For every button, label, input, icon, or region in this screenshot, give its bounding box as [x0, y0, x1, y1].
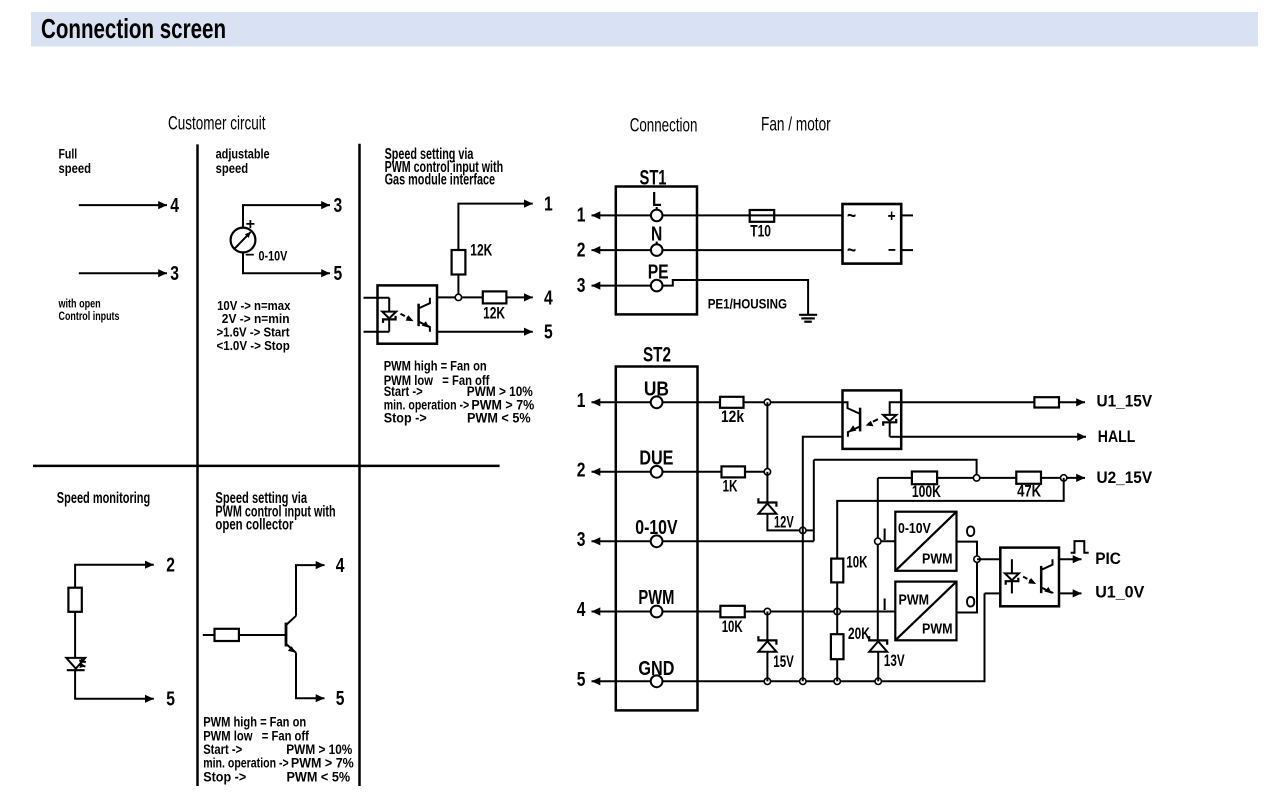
wire V1 to pin 5 — [243, 252, 330, 273]
svg-text:3: 3 — [170, 263, 179, 285]
svg-text:5: 5 — [544, 322, 553, 344]
converter A2 PWM to PWM — [895, 582, 956, 641]
wire PWM junction to R11 — [836, 612, 838, 635]
svg-text:1: 1 — [577, 205, 586, 227]
svg-text:PIC: PIC — [1095, 549, 1121, 568]
U1 light arrow — [401, 314, 414, 321]
U1 input wire bottom — [364, 331, 390, 333]
wire D2 to riser — [767, 514, 813, 531]
wire PWM junction to D3 — [766, 612, 768, 641]
U3 phototransistor — [1041, 559, 1052, 593]
resistor R8 100K — [912, 472, 937, 485]
svg-text:2: 2 — [166, 555, 175, 577]
header band — [31, 12, 1258, 47]
U1 phototransistor — [419, 298, 430, 332]
junction DUE — [764, 469, 770, 475]
resistor R10 10K vertical — [831, 559, 843, 583]
svg-text:−: − — [245, 247, 255, 264]
wire U2 collector to U1_15V — [901, 401, 1085, 403]
note PWM thresholds open collector — [203, 715, 354, 785]
node I input — [875, 538, 881, 544]
wire 100K 47K line to U2_15V — [878, 477, 1085, 479]
pin L — [651, 189, 663, 221]
wire 2 DUE to junction — [592, 471, 768, 473]
svg-text:5: 5 — [577, 669, 586, 691]
svg-text:Fan / motor: Fan / motor — [761, 114, 831, 135]
svg-text:3: 3 — [577, 275, 586, 297]
zener D2 12V — [758, 498, 776, 514]
svg-text:U2_15V: U2_15V — [1097, 468, 1153, 487]
svg-text:U1_15V: U1_15V — [1097, 391, 1153, 410]
wire R3 to pin 2 — [75, 565, 154, 588]
wire motor output top — [901, 214, 913, 216]
junction PWM 10K — [834, 608, 840, 614]
pin PWM — [638, 587, 674, 617]
divider horizontal — [33, 465, 500, 468]
LED D1 — [66, 658, 85, 670]
svg-text:speed: speed — [216, 160, 249, 176]
wire 1 L to motor — [592, 214, 843, 216]
svg-text:4: 4 — [170, 195, 179, 217]
label Speed setting via PWM control input with Gas module interface — [385, 146, 504, 189]
connector ST2 box — [616, 367, 698, 711]
junction GND c — [834, 678, 840, 684]
U2 phototransistor — [843, 402, 860, 437]
svg-text:O: O — [966, 522, 976, 541]
wire U2 emitter to GND — [803, 437, 843, 682]
transistor Q1 — [286, 616, 296, 653]
svg-text:Speed monitoring: Speed monitoring — [57, 490, 150, 507]
wire A1 A2 outputs — [957, 542, 978, 613]
svg-text:2: 2 — [577, 239, 586, 261]
U1 input wire top — [364, 297, 390, 299]
U3 light arrow — [1023, 577, 1036, 584]
zener D3 15V — [758, 636, 776, 652]
svg-text:I: I — [883, 525, 887, 544]
svg-text:20K: 20K — [848, 624, 870, 643]
resistor R7 10K — [720, 606, 744, 618]
wire base input — [203, 634, 285, 636]
wire 1 UB to U2 — [592, 401, 844, 403]
svg-text:with open: with open — [58, 299, 101, 311]
wire V1 to pin 3 — [243, 205, 330, 228]
svg-text:12K: 12K — [470, 241, 493, 260]
wire U3 LED cathode to GND — [985, 592, 1001, 594]
wire full speed to pin 4 — [79, 204, 167, 206]
wire feedback down to 10K — [837, 478, 1063, 559]
svg-text:100K: 100K — [912, 482, 942, 501]
wire R3 to LED D1 — [74, 612, 76, 658]
svg-text:15V: 15V — [773, 652, 794, 671]
pulse symbol — [1071, 541, 1089, 553]
svg-text:PWM: PWM — [899, 592, 930, 609]
junction zener gnd line — [800, 527, 806, 533]
optocoupler U3 box — [1000, 548, 1059, 607]
note PWM thresholds gas module — [384, 359, 535, 426]
note with open control inputs — [58, 299, 120, 324]
resistor R6 1K — [722, 466, 746, 477]
svg-text:0-10V: 0-10V — [898, 520, 931, 537]
svg-text:Stop ->: Stop -> — [384, 410, 427, 425]
wire R11 to GND — [836, 659, 838, 681]
wire U3 emitter to U1_0V — [1059, 592, 1082, 594]
label adjustable speed — [216, 146, 270, 176]
resistor R12 — [1034, 397, 1059, 407]
pin UB — [644, 378, 669, 408]
wire I node branch — [877, 478, 879, 641]
wire 0-10V top run — [814, 460, 977, 478]
wire Q1 collector to pin 4 — [296, 565, 325, 616]
junction 47K output — [1061, 475, 1067, 481]
resistor R4 — [215, 629, 239, 641]
wire 2 N to motor — [592, 249, 843, 251]
wire 0-10V riser — [813, 460, 815, 542]
wire D3 to GND — [766, 652, 768, 682]
svg-text:+: + — [888, 206, 896, 225]
svg-text:PWM: PWM — [922, 551, 953, 568]
svg-text:5: 5 — [336, 688, 345, 710]
wire U1 collector to pin 4 — [437, 296, 533, 298]
wire 4 PWM to converter A2 — [592, 611, 896, 613]
wire full speed to pin 3 — [79, 272, 167, 274]
svg-text:~: ~ — [847, 240, 856, 262]
wire 5 GND run — [592, 593, 985, 681]
U2 LED — [883, 402, 901, 437]
wire R10 to PWM junction — [836, 582, 838, 611]
pin N — [651, 224, 663, 256]
wire U1 emitter to pin 5 — [437, 331, 533, 333]
svg-text:1: 1 — [577, 390, 586, 412]
svg-text:HALL: HALL — [1098, 427, 1136, 446]
svg-text:Stop ->: Stop -> — [203, 769, 246, 784]
U2 light arrow — [866, 419, 878, 426]
pin GND — [638, 658, 674, 687]
svg-text:4: 4 — [544, 287, 553, 309]
svg-text:4: 4 — [577, 599, 586, 621]
svg-text:Customer circuit: Customer circuit — [168, 113, 266, 134]
junction GND a — [764, 678, 770, 684]
svg-text:ST2: ST2 — [643, 344, 671, 367]
svg-text:Connection screen: Connection screen — [41, 13, 226, 44]
pin 0-10V — [635, 517, 678, 547]
resistor R2 12K horizontal — [483, 291, 507, 303]
optocoupler U2 box — [843, 390, 902, 449]
wire 3 0-10V to riser — [592, 540, 814, 542]
resistor R9 47K — [1016, 472, 1041, 484]
wire motor output bottom — [901, 249, 913, 251]
zener D4 13V — [869, 636, 887, 652]
svg-text:4: 4 — [336, 555, 345, 577]
svg-text:0-10V: 0-10V — [259, 248, 288, 264]
wire I node to converter A1 — [878, 540, 896, 542]
fuse F1 — [750, 210, 775, 222]
svg-text:open collector: open collector — [215, 517, 293, 534]
junction UB — [764, 399, 770, 405]
wire LED D1 to pin 5 — [75, 670, 154, 699]
svg-text:T10: T10 — [750, 222, 771, 241]
optocoupler U1 box — [378, 285, 438, 343]
svg-text:O: O — [966, 593, 976, 612]
wire D4 to GND — [877, 652, 879, 682]
note voltage thresholds — [217, 298, 291, 353]
svg-text:PWM: PWM — [922, 621, 953, 638]
svg-text:PWM < 5%: PWM < 5% — [467, 410, 531, 425]
label Speed setting via PWM control input with open collector — [215, 490, 335, 534]
resistor R1 12K vertical — [452, 250, 466, 275]
svg-text:12K: 12K — [483, 304, 506, 323]
svg-text:Control inputs: Control inputs — [59, 311, 120, 323]
wire junction to U3 — [977, 558, 1000, 560]
junction PWM zener — [764, 608, 770, 614]
resistor R11 20K — [831, 634, 844, 659]
wire DUE junction to zener D2 — [766, 472, 768, 503]
fuse F1 inner wire — [750, 214, 775, 216]
wire U2 LED to HALL — [901, 436, 1086, 438]
svg-text:1K: 1K — [723, 477, 738, 496]
svg-text:13V: 13V — [884, 651, 905, 670]
divider vertical 2 — [358, 144, 361, 786]
wire junction to pin 1 — [458, 204, 532, 250]
svg-text:PWM < 5%: PWM < 5% — [287, 769, 351, 784]
converter A1 0-10V to PWM — [895, 512, 956, 571]
pin DUE — [639, 448, 673, 478]
U3 LED — [1005, 559, 1019, 593]
junction GND d — [875, 678, 881, 684]
svg-text:3: 3 — [577, 529, 586, 551]
svg-text:1: 1 — [544, 194, 553, 216]
junction node — [455, 294, 461, 300]
voltage source V1 — [231, 228, 256, 253]
svg-text:U1_0V: U1_0V — [1095, 582, 1145, 601]
svg-text:12V: 12V — [774, 513, 794, 532]
svg-text:+: + — [246, 216, 256, 233]
svg-text:~: ~ — [847, 205, 856, 227]
svg-text:PWM high = Fan on: PWM high = Fan on — [384, 359, 487, 374]
junction 100K 47K — [973, 475, 979, 481]
svg-text:speed: speed — [59, 160, 92, 176]
connector ST1 box — [616, 187, 697, 315]
resistor R5 12k — [720, 397, 744, 408]
svg-text:−: − — [888, 241, 896, 260]
svg-text:<1.0V -> Stop: <1.0V -> Stop — [217, 338, 290, 353]
divider vertical 1 — [196, 144, 199, 786]
svg-text:Gas module interface: Gas module interface — [385, 172, 496, 189]
svg-text:5: 5 — [166, 689, 175, 711]
motor M1 box — [843, 204, 902, 264]
wire 3 PE to ground — [592, 280, 809, 314]
wire Q1 emitter to pin 5 — [296, 653, 325, 698]
wire R1 to junction — [457, 275, 459, 298]
svg-text:PE1/HOUSING: PE1/HOUSING — [708, 296, 787, 312]
label Full speed — [59, 146, 92, 176]
svg-text:I: I — [883, 595, 887, 614]
wire UB junction to DUE junction — [766, 402, 768, 472]
svg-text:10K: 10K — [846, 552, 867, 571]
resistor R3 — [68, 588, 81, 612]
junction GND b — [800, 678, 806, 684]
svg-text:12k: 12k — [721, 407, 744, 426]
svg-text:Connection: Connection — [630, 116, 698, 137]
wire U3 collector to PIC — [1059, 558, 1082, 560]
U1 LED — [382, 298, 396, 332]
svg-text:10K: 10K — [722, 617, 743, 636]
svg-text:47K: 47K — [1017, 482, 1042, 501]
svg-text:2: 2 — [577, 459, 586, 481]
pin PE — [648, 261, 669, 291]
svg-text:3: 3 — [334, 195, 343, 217]
ground PE1 — [799, 315, 817, 322]
junction converter outputs — [974, 556, 980, 562]
svg-text:5: 5 — [334, 263, 343, 285]
LED D1 emission arrows — [79, 660, 86, 666]
